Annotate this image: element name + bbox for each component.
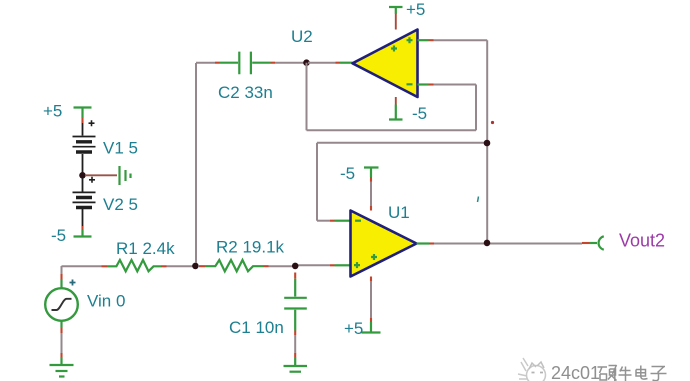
wire main right column (486, 40, 488, 243)
wire U1 feedback left column (316, 143, 318, 221)
ground (below Vin) (50, 357, 74, 377)
svg-text:+5: +5 (406, 0, 425, 19)
node R1/R2/C2-column junction (192, 263, 199, 270)
wire left column (C2 to node1) (195, 63, 197, 263)
wire node1 to C2 (196, 62, 215, 64)
svg-text:-5: -5 (51, 226, 66, 245)
wire feedback to U1 inverting input (317, 220, 330, 222)
power +5 U1 bottom (344, 277, 381, 339)
svg-text:+5: +5 (43, 102, 62, 121)
wire C1 to ground (294, 335, 296, 357)
wire Vin to R1 (62, 265, 102, 267)
capacitor C1 (229, 273, 307, 338)
capacitor C2 (215, 52, 275, 102)
battery V2 (73, 177, 138, 226)
svg-text:+5: +5 (344, 319, 363, 338)
svg-text:V1 5: V1 5 (103, 139, 138, 158)
node R2/C1/U1 junction (292, 263, 299, 270)
svg-text:U1: U1 (388, 203, 410, 222)
output terminal Vout2 (582, 231, 665, 251)
wire node3 to U1 noninverting input (297, 264, 330, 266)
wire to mid ground (85, 174, 117, 176)
wire U2 loop to inverting input (434, 84, 477, 86)
svg-text:V2 5: V2 5 (103, 195, 138, 214)
power +5 U2 top (389, 0, 425, 30)
node battery midpoint junction (79, 172, 86, 179)
svg-text:Vin 0: Vin 0 (87, 292, 125, 311)
source Vin (45, 266, 125, 357)
svg-text:U2: U2 (291, 27, 313, 46)
svg-text:-5: -5 (340, 164, 355, 183)
stray mark red (491, 121, 494, 124)
ground (below C1) (284, 357, 308, 372)
battery V1 (73, 120, 138, 173)
wire R1 to node1 (167, 265, 194, 267)
svg-text:R2 19.1k: R2 19.1k (216, 238, 285, 257)
resistor R2 (199, 238, 292, 272)
node feedback/column junction (484, 140, 491, 147)
stray mark teal (478, 197, 479, 203)
svg-text:C1 10n: C1 10n (229, 318, 284, 337)
wire U2 loop right column (475, 85, 477, 131)
op-amp U2 (291, 27, 434, 97)
wire U2 loop bottom (307, 129, 477, 131)
wire U2 loop left column (306, 63, 308, 131)
power -5 V2 bottom (51, 226, 92, 245)
resistor R1 (102, 239, 176, 271)
node output/column junction (484, 240, 491, 247)
power -5 U2 bottom (389, 97, 427, 123)
power +5 V1 top (43, 102, 92, 124)
ground (mid, pointing right) (120, 166, 131, 185)
watermark logo (518, 358, 546, 381)
power -5 U1 top (340, 164, 379, 211)
wire C2 to node2 (275, 62, 304, 64)
svg-text:-5: -5 (412, 104, 427, 123)
wire U1 feedback top (317, 142, 487, 144)
svg-text:24c01: 24c01 (551, 363, 600, 381)
svg-text:C2 33n: C2 33n (218, 83, 273, 102)
svg-text:R1 2.4k: R1 2.4k (116, 239, 175, 258)
wire node2 to U2 output (308, 62, 336, 64)
op-amp U1 (330, 203, 434, 277)
wire U2 noninverting input to right column (434, 39, 488, 41)
svg-text:Vout2: Vout2 (619, 231, 665, 251)
wire U1 output to Vout2 (434, 243, 582, 245)
node C2/U2out/feedback junction (303, 59, 310, 66)
